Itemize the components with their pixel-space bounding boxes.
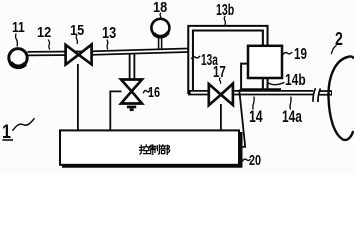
tilde leader for label 16	[143, 90, 150, 93]
leader line for label 12	[48, 40, 50, 50]
leader squiggle for label 1	[13, 118, 35, 131]
label 13	[102, 26, 116, 42]
leader line for label 15	[76, 35, 77, 44]
label 18	[153, 0, 167, 15]
controller text 控制部 drawn as strokes	[140, 145, 170, 155]
leader line for label 18	[159, 13, 162, 19]
label 1	[2, 123, 11, 142]
control wire valve 15 to controller	[77, 64, 79, 131]
valve 17 bowtie	[209, 84, 233, 106]
leader line for label 11	[16, 34, 18, 47]
pipe 14a stub from coupling to chamber 2	[319, 90, 332, 95]
tilde leader for label 20	[242, 159, 250, 161]
valve 16 bowtie (vertical)	[121, 80, 142, 104]
tilde leader for label 19	[282, 52, 292, 55]
label 17	[213, 65, 226, 81]
leader line for label 14a	[290, 97, 291, 110]
gauge 18 circle	[151, 19, 169, 37]
label 12	[37, 25, 51, 40]
tilde leader for label 13a	[191, 56, 200, 59]
chamber 2 (partial ellipse at right edge)	[328, 56, 353, 140]
loop bottom segment to valve 17	[188, 90, 210, 95]
gauge 11 circle	[9, 49, 27, 67]
box 19 rear offset edge (shadow)	[241, 64, 281, 90]
pipe 12 / pipe 13 main horizontal line	[28, 50, 193, 54]
label 11	[12, 20, 25, 35]
box 19 front rectangle	[248, 46, 282, 78]
leader line for label 13b	[224, 16, 225, 25]
control wire valve 17 to controller	[220, 104, 222, 131]
glyph 部	[160, 145, 169, 155]
pipe 14 / 14a from valve 17 to coupling	[232, 90, 313, 95]
label 2	[335, 30, 343, 48]
label 15	[70, 23, 84, 38]
coupling joint on pipe 14a	[313, 88, 320, 102]
leader line for label 17	[220, 78, 221, 84]
control wire box 19 to controller 20	[239, 90, 246, 147]
stem pipe from pipe 13 down to valve 16	[129, 52, 136, 81]
glyph 控	[140, 145, 150, 154]
label 14a	[282, 108, 302, 125]
leader line for label 14	[253, 97, 254, 110]
label 13b	[216, 3, 234, 19]
label 20	[249, 154, 261, 169]
pipe 14b from box 19 down to pipe 14	[262, 75, 269, 94]
controller box 20	[60, 130, 242, 166]
valve 16 drain stub	[127, 106, 136, 112]
valve 15 bowtie	[66, 44, 92, 64]
label 14	[249, 108, 263, 125]
label 14b	[285, 73, 306, 89]
leader line for label 13	[107, 40, 108, 50]
bypass loop 13b / 13a (left, top, right sides)	[191, 28, 266, 94]
leader line for label 2	[331, 46, 336, 55]
control wire valve 16 to controller	[110, 91, 121, 131]
label 13a	[201, 53, 218, 69]
label 16	[148, 86, 160, 101]
leader line for label 14b	[268, 82, 285, 85]
label 19	[294, 47, 307, 63]
underline of label 1	[3, 139, 14, 141]
glyph 制	[150, 145, 160, 155]
stem pipe from gauge 18 down to pipe 13	[158, 38, 163, 52]
